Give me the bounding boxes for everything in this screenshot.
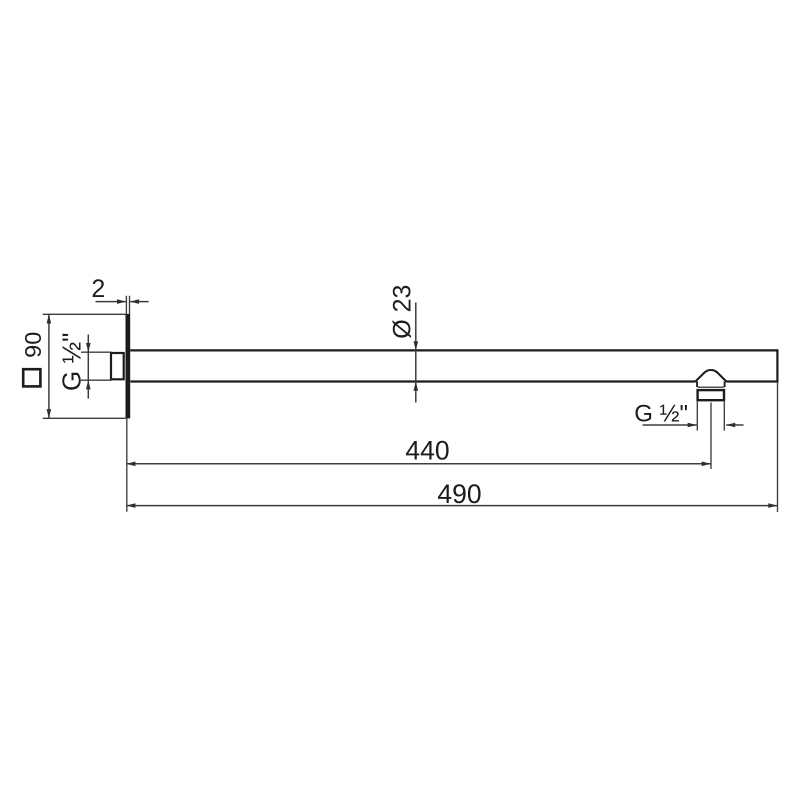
dimension 490 : line (126, 505, 777, 507)
svg-text:440: 440 (405, 435, 449, 465)
wall fitting dim : vertical line (87, 335, 89, 399)
outlet dim : right line with arrow (726, 424, 743, 426)
dimension 2 : extension line left face (125, 296, 127, 314)
dimension 90 : bottom extension line (43, 417, 126, 419)
dimension 440 : line (126, 463, 711, 465)
svg-text:2: 2 (91, 275, 105, 303)
wall fitting dim : top tick (81, 351, 112, 353)
left common extension line (126, 418, 128, 511)
outlet dim : left extension line (696, 402, 698, 431)
svg-text:G ½": G ½" (634, 401, 688, 428)
wall fitting dim : bottom tick (81, 379, 112, 381)
dimension Ø23 : bottom arrow (414, 382, 419, 391)
outlet dome (connector shoulder poking into tube) (695, 370, 726, 382)
dimension 490 : left arrow (126, 503, 135, 508)
dimension 90 : bottom arrow (47, 409, 52, 418)
svg-text:Ø 23: Ø 23 (388, 285, 416, 339)
wall fitting dim : top arrow (86, 343, 91, 352)
shower arm tube bottom edge left segment (130, 380, 695, 382)
outlet dim : right extension line (723, 402, 725, 431)
dimension 2 : right line with arrow (130, 301, 148, 303)
dimension 90 : top extension line (43, 313, 126, 315)
shower arm tube top edge (130, 349, 778, 351)
dimension 2 : extension line right face (129, 296, 131, 314)
outlet nut (G 1/2 male thread) (698, 390, 724, 400)
dimension 490 : right arrow (768, 503, 777, 508)
dimension Ø23 : vertical line (415, 303, 417, 403)
outlet washer line (698, 386, 725, 388)
outlet neck right edge (724, 382, 726, 388)
square-section symbol (23, 369, 40, 386)
svg-text:G ½": G ½" (57, 333, 87, 391)
shower arm tube bottom edge right segment (726, 380, 778, 382)
dimension Ø23 : top arrow (414, 341, 419, 350)
svg-text:90: 90 (20, 332, 46, 358)
wall fitting dim : bottom arrow (86, 380, 91, 389)
outlet dim : left line with arrow (643, 424, 697, 426)
svg-text:490: 490 (437, 479, 481, 509)
wall-side G 1/2 fitting (square connector behind plate) (111, 353, 124, 379)
dimension 440 : right arrow (702, 462, 711, 467)
right extension line (tube end) (777, 383, 779, 513)
shower arm tube right end cap (776, 349, 778, 382)
outlet neck left edge (696, 382, 698, 388)
outlet centre extension line (710, 403, 712, 470)
wall plate (side view, filled bar) (126, 314, 131, 419)
dimension 440 : left arrow (126, 462, 135, 467)
dimension 90 : top arrow (47, 314, 52, 323)
dimension 2 : left line with arrow (96, 301, 126, 303)
dimension 90 : dimension line (48, 314, 50, 418)
